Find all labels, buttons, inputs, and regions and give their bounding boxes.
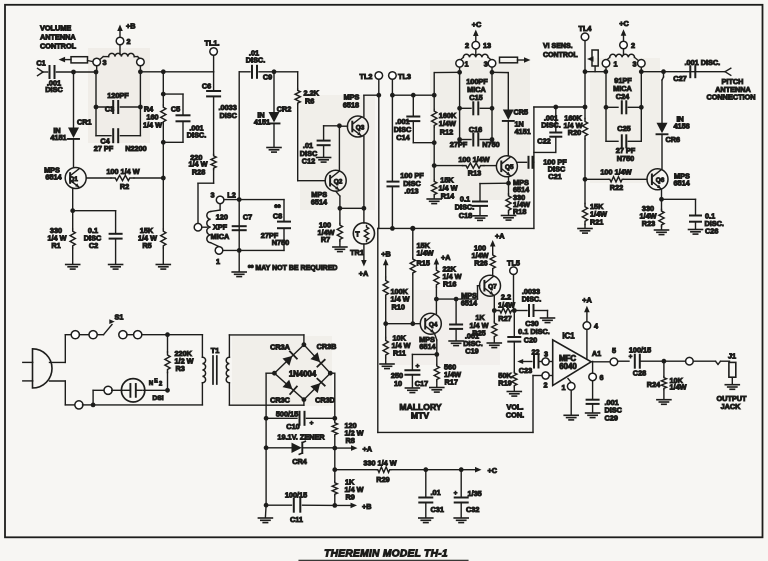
resistor R18 bbox=[506, 183, 530, 216]
svg-text:N: N bbox=[149, 381, 153, 387]
svg-text:TR1: TR1 bbox=[350, 248, 364, 257]
svg-text:CR3D: CR3D bbox=[315, 396, 335, 405]
ground below J1 bbox=[725, 385, 739, 390]
capacitor C20 bbox=[508, 311, 550, 372]
pin 4 of IC1 with +A bbox=[582, 296, 599, 360]
plug bottom wire bbox=[50, 381, 76, 405]
ground below C29 bbox=[586, 413, 600, 418]
bottom rail terminal bbox=[75, 401, 96, 409]
svg-text:R15: R15 bbox=[417, 258, 430, 267]
TL4/R20 vertical line bbox=[583, 41, 588, 119]
wire CR1 to Q1 base bbox=[73, 140, 75, 168]
resistor R12 bbox=[432, 73, 457, 166]
diode CR3A bbox=[270, 343, 297, 366]
svg-text:C20: C20 bbox=[524, 336, 537, 345]
svg-text:XPF: XPF bbox=[213, 223, 228, 232]
svg-text:+C: +C bbox=[472, 20, 482, 29]
label VOL CON bbox=[506, 403, 524, 420]
svg-text:2: 2 bbox=[543, 380, 547, 389]
svg-text:R1: R1 bbox=[51, 241, 60, 250]
svg-text:T: T bbox=[355, 232, 360, 239]
+C arrow right bbox=[475, 466, 498, 475]
resistor R10 bbox=[383, 277, 410, 324]
rail under TL2/TL3 bbox=[378, 226, 534, 231]
svg-text:CONNECTION: CONNECTION bbox=[706, 93, 755, 102]
transistor Q5 bbox=[496, 156, 530, 194]
svg-text:MTV: MTV bbox=[411, 410, 429, 420]
terminal 2 of L1 center tap bbox=[116, 37, 130, 55]
capacitor C17 bbox=[391, 363, 428, 388]
label volume antenna control bbox=[40, 24, 77, 51]
svg-text:C26: C26 bbox=[705, 227, 718, 236]
diode CR5 bbox=[503, 73, 531, 156]
svg-text:R9: R9 bbox=[346, 493, 355, 502]
svg-text:+B: +B bbox=[126, 22, 136, 31]
svg-text:CR4: CR4 bbox=[292, 457, 308, 466]
wire emitter to C17 bbox=[412, 354, 436, 369]
node Q2 emitter junction bbox=[338, 206, 343, 211]
node Q2 collector / Q3 base bbox=[337, 123, 342, 128]
svg-text:2: 2 bbox=[126, 37, 130, 46]
svg-text:C11: C11 bbox=[290, 515, 303, 524]
resistor R13 bbox=[434, 155, 495, 178]
terminal TL4 bbox=[579, 24, 593, 41]
svg-text:27PF: 27PF bbox=[450, 140, 468, 149]
svg-text:ANTENNA: ANTENNA bbox=[40, 33, 76, 42]
C7 rail bbox=[238, 72, 240, 272]
svg-text:4158: 4158 bbox=[674, 122, 690, 131]
resistor R14 bbox=[432, 166, 458, 201]
svg-text:R28: R28 bbox=[192, 167, 205, 176]
connector J1 bbox=[728, 352, 736, 385]
+B supply arrow at L1 bbox=[117, 22, 135, 38]
ground below C18 bbox=[473, 216, 487, 221]
svg-text:6514: 6514 bbox=[311, 198, 328, 207]
label MALLORY MTV bbox=[399, 402, 441, 420]
T1 secondary top wire bbox=[229, 335, 304, 345]
label 1N4004 bbox=[289, 369, 317, 378]
svg-text:R10: R10 bbox=[392, 303, 405, 312]
svg-text:R16: R16 bbox=[443, 280, 456, 289]
wire TL2 down to rail bbox=[376, 79, 381, 228]
terminal TL1 bbox=[205, 39, 220, 56]
svg-text:R12: R12 bbox=[440, 127, 453, 136]
svg-text:1/35: 1/35 bbox=[468, 489, 482, 498]
svg-text:+A: +A bbox=[582, 296, 592, 305]
svg-text:2: 2 bbox=[465, 41, 469, 50]
node R10/R11 bbox=[383, 321, 388, 326]
svg-text:+: + bbox=[454, 491, 458, 497]
node Q5 emitter bbox=[506, 177, 511, 186]
wire Q2 emitter bbox=[336, 191, 364, 208]
svg-text:R29: R29 bbox=[376, 475, 389, 484]
svg-text:100 1/4W: 100 1/4W bbox=[600, 167, 631, 176]
svg-text:C6: C6 bbox=[202, 82, 211, 91]
node R2/R4/R5 junction bbox=[161, 176, 166, 181]
ground below R24 bbox=[657, 400, 671, 405]
svg-text:C19: C19 bbox=[465, 347, 478, 356]
ground below CR2 bbox=[267, 124, 281, 152]
svg-text:TL2: TL2 bbox=[360, 72, 373, 81]
svg-text:R8: R8 bbox=[346, 436, 355, 445]
terminal 3 of L1 bbox=[93, 58, 107, 67]
neon lamp DS1 bbox=[121, 379, 163, 402]
ground below C2 bbox=[109, 265, 123, 270]
wire emitter to C2 bbox=[73, 211, 116, 233]
capacitor C21 bbox=[517, 157, 567, 181]
resistor R15 bbox=[410, 228, 433, 323]
svg-text:R11: R11 bbox=[393, 349, 406, 358]
L2 tank labels bbox=[211, 212, 230, 241]
coil L2 bbox=[207, 190, 236, 266]
capacitor C1 bbox=[36, 59, 73, 95]
svg-text:S1: S1 bbox=[115, 313, 124, 322]
svg-text:6514: 6514 bbox=[45, 173, 62, 182]
svg-text:N750: N750 bbox=[482, 140, 499, 149]
terminal 1 of L2 bbox=[215, 247, 223, 255]
svg-text:DSI: DSI bbox=[152, 395, 163, 402]
node R15/Q4 base bbox=[410, 321, 415, 326]
node C19 tap bbox=[454, 297, 459, 302]
svg-text:R18: R18 bbox=[513, 207, 526, 216]
transistor Q6 bbox=[647, 169, 691, 190]
svg-text:TL5: TL5 bbox=[507, 258, 520, 267]
trimmer slug at TL4 bbox=[587, 50, 598, 72]
wire to Q3 base bbox=[339, 125, 347, 127]
pin 2 of IC1 bbox=[542, 372, 553, 389]
capacitor C6 bbox=[202, 82, 238, 155]
svg-text:JACK: JACK bbox=[721, 402, 742, 411]
svg-text:DISC: DISC bbox=[220, 111, 238, 120]
ground below R7 bbox=[333, 247, 347, 252]
node R3 top bbox=[165, 332, 202, 337]
coil of pitch ref osc bbox=[606, 54, 638, 60]
svg-text:C21: C21 bbox=[548, 172, 561, 181]
terminal right of L1 bbox=[137, 58, 145, 66]
svg-text:120PF: 120PF bbox=[107, 91, 129, 100]
capacitor C3 bbox=[94, 91, 143, 114]
svg-text:CR3C: CR3C bbox=[270, 396, 291, 405]
svg-text:.013: .013 bbox=[404, 187, 418, 196]
node C32 bbox=[459, 467, 476, 472]
capacitor C23 bbox=[519, 348, 542, 376]
svg-text:CR2: CR2 bbox=[277, 105, 292, 114]
wire to Q4 base bbox=[386, 323, 421, 325]
svg-text:DISC.: DISC. bbox=[187, 131, 206, 140]
node L2 bottom bbox=[237, 248, 242, 253]
coil of pitch VFO bbox=[460, 54, 492, 60]
svg-text:CR3B: CR3B bbox=[317, 342, 337, 351]
svg-text:2: 2 bbox=[631, 41, 635, 50]
wire Q3 emitter down bbox=[363, 137, 365, 209]
svg-text:+: + bbox=[310, 420, 314, 427]
wire Q2 collector up bbox=[338, 126, 340, 171]
volume antenna connection stub bbox=[38, 68, 44, 75]
svg-text:R20: R20 bbox=[568, 128, 581, 137]
svg-text:CONTROL: CONTROL bbox=[543, 52, 578, 59]
svg-text:Q2: Q2 bbox=[334, 179, 343, 186]
DC minus rail bbox=[264, 373, 275, 507]
node C28/R24 bbox=[662, 359, 667, 364]
T1 secondary bottom wire bbox=[229, 400, 304, 406]
label VI SENS CONTROL bbox=[543, 43, 578, 59]
pitch antenna connection stub bbox=[725, 68, 731, 75]
ground below R23 bbox=[655, 230, 669, 235]
resistor R24 bbox=[647, 361, 687, 399]
svg-text:** MAY NOT BE REQUIRED: ** MAY NOT BE REQUIRED bbox=[248, 265, 337, 272]
svg-text:Q5: Q5 bbox=[505, 164, 514, 171]
wire R6 to Q2 base bbox=[298, 180, 326, 182]
DC plus rail bbox=[330, 373, 337, 421]
svg-text:R6: R6 bbox=[305, 97, 314, 106]
wire coil3 row to CR6/C27 bbox=[641, 69, 725, 74]
svg-text:E: E bbox=[154, 379, 158, 385]
wire DS1 to R3 bbox=[144, 388, 170, 393]
svg-text:6518: 6518 bbox=[343, 101, 359, 110]
capacitor C5 bbox=[163, 94, 206, 142]
op-amp IC1 MFC6040 bbox=[553, 331, 601, 385]
node Q6 emitter bbox=[659, 190, 664, 202]
svg-text:C17: C17 bbox=[415, 379, 428, 388]
svg-text:C23: C23 bbox=[519, 366, 532, 375]
trimmer slug for VFO coil bbox=[500, 57, 531, 63]
svg-text:1/4W: 1/4W bbox=[498, 300, 515, 309]
resistor R16 bbox=[434, 265, 462, 314]
svg-text:R5: R5 bbox=[142, 241, 151, 250]
wire R28 to L2 wiper bbox=[198, 170, 214, 224]
resistor R26 bbox=[471, 244, 495, 276]
svg-text:R19: R19 bbox=[498, 379, 511, 388]
resistor R20 bbox=[563, 113, 587, 179]
wire to TR1 bbox=[363, 208, 365, 223]
ground below R1 bbox=[66, 265, 80, 270]
note may not be required bbox=[248, 265, 337, 272]
bridge rectifier frame bbox=[272, 342, 333, 402]
+B arrow right bbox=[335, 502, 372, 511]
svg-text:J1: J1 bbox=[728, 352, 736, 361]
wire bottom rail to T1 bbox=[93, 404, 202, 406]
transistor Q4 bbox=[419, 313, 441, 351]
capacitor C18 bbox=[455, 183, 509, 220]
resistor R28 bbox=[188, 153, 216, 177]
svg-text:+A: +A bbox=[441, 253, 451, 262]
ground below R17 bbox=[430, 388, 444, 393]
resistor R3 bbox=[165, 335, 194, 391]
svg-text:DISC: DISC bbox=[45, 85, 63, 94]
ground below C32 bbox=[454, 518, 468, 523]
svg-text:3: 3 bbox=[544, 349, 548, 358]
svg-text:.001 DISC.: .001 DISC. bbox=[685, 58, 721, 67]
svg-text:L2: L2 bbox=[227, 190, 236, 199]
svg-text:C7: C7 bbox=[243, 212, 252, 221]
capacitor C14 bbox=[394, 95, 434, 143]
svg-text:3: 3 bbox=[632, 60, 636, 69]
capacitor C12 bbox=[300, 126, 340, 166]
node L2 top bbox=[237, 197, 242, 202]
resistor R22 bbox=[585, 167, 647, 192]
capacitor C32 bbox=[454, 470, 482, 518]
svg-text:DISC.: DISC. bbox=[522, 295, 541, 304]
svg-text:3: 3 bbox=[210, 191, 214, 200]
svg-text:1: 1 bbox=[216, 257, 220, 266]
scan wash bridge bbox=[232, 336, 332, 406]
AC plug bbox=[23, 349, 52, 388]
ground below C31 bbox=[419, 518, 433, 523]
capacitor C22 bbox=[534, 107, 561, 152]
terminal 1 of VFO coil bbox=[456, 60, 469, 69]
ground below DC minus rail bbox=[258, 505, 272, 522]
svg-text:C25: C25 bbox=[617, 124, 630, 133]
svg-text:DISC.: DISC. bbox=[246, 56, 265, 65]
VFO left rail bbox=[459, 72, 461, 139]
wire Q7 emitter bbox=[492, 296, 497, 313]
thermistor TR1 bbox=[350, 223, 374, 257]
svg-text:+: + bbox=[629, 355, 633, 361]
ground below C26 bbox=[689, 230, 703, 235]
wire C9 to R6 bbox=[274, 71, 298, 73]
svg-text:6040: 6040 bbox=[559, 362, 577, 371]
svg-text:4151: 4151 bbox=[50, 133, 66, 142]
svg-text:C27: C27 bbox=[673, 74, 686, 83]
transformer T1 bbox=[202, 335, 229, 405]
svg-text:C18: C18 bbox=[459, 211, 472, 220]
svg-text:5: 5 bbox=[612, 346, 616, 355]
svg-text:4151: 4151 bbox=[515, 127, 531, 136]
volume pot wiper arrow bbox=[517, 359, 532, 364]
wire Q1 emitter bbox=[70, 188, 75, 213]
+C supply arrow at VFO tank bbox=[472, 20, 482, 41]
svg-text:19.1V. ZENER: 19.1V. ZENER bbox=[277, 433, 325, 442]
svg-text:C28: C28 bbox=[633, 369, 646, 378]
wire TL4 row to coil bbox=[585, 69, 608, 74]
svg-text:C32: C32 bbox=[466, 505, 479, 514]
svg-text:C15: C15 bbox=[469, 93, 482, 102]
capacitor C13 disc .013 bbox=[388, 171, 425, 228]
wire Q4 emitter bbox=[434, 334, 439, 357]
svg-text:R23: R23 bbox=[642, 219, 655, 228]
resistor R11 bbox=[383, 324, 411, 364]
plug top wire bbox=[50, 335, 72, 363]
node C9/CR2 bbox=[272, 69, 277, 74]
svg-text:VOLUME: VOLUME bbox=[40, 24, 71, 33]
svg-text:R14: R14 bbox=[441, 191, 455, 200]
+B arrow to R10 bbox=[381, 250, 391, 277]
svg-text:1N4004: 1N4004 bbox=[289, 369, 317, 378]
node +A takeoff bbox=[332, 446, 337, 451]
output coupling terminal bbox=[664, 357, 716, 365]
terminal 3 of VFO coil bbox=[484, 60, 496, 69]
ground below R21 bbox=[578, 229, 592, 234]
svg-text:C9: C9 bbox=[263, 73, 272, 82]
capacitor C10 bbox=[266, 409, 335, 431]
svg-text:DISC.: DISC. bbox=[541, 120, 560, 129]
bus Q4 collector to Q7 base bbox=[436, 286, 479, 299]
svg-text:C12: C12 bbox=[302, 157, 315, 166]
svg-text:Q6: Q6 bbox=[656, 177, 665, 184]
svg-text:TL1.: TL1. bbox=[205, 39, 220, 48]
capacitor C29 bbox=[587, 381, 623, 423]
svg-text:6514: 6514 bbox=[419, 342, 436, 351]
+A arrow to R16 bbox=[434, 253, 452, 268]
resistor R1 bbox=[47, 211, 75, 264]
diode CR2 bbox=[254, 72, 291, 127]
trimmer slug for L1 bbox=[59, 57, 93, 63]
transistor Q3 bbox=[343, 93, 369, 138]
node +B takeoff bbox=[332, 503, 337, 508]
svg-text:4151: 4151 bbox=[254, 118, 270, 127]
svg-text:N750: N750 bbox=[272, 238, 289, 247]
svg-text:C10: C10 bbox=[286, 422, 299, 431]
svg-text:1: 1 bbox=[561, 383, 565, 392]
svg-text:+: + bbox=[416, 363, 420, 370]
svg-text:TL3: TL3 bbox=[398, 72, 411, 81]
ground below C17 bbox=[405, 388, 419, 393]
resistor R23 bbox=[639, 199, 664, 229]
svg-text:C1: C1 bbox=[36, 59, 45, 68]
resistor R17 bbox=[434, 354, 461, 387]
switch S1 bbox=[71, 313, 167, 339]
svg-text:CR6: CR6 bbox=[666, 135, 681, 144]
neon lamp DS1 branch bbox=[93, 386, 123, 405]
resistor R25 bbox=[469, 311, 496, 343]
wire C21 line vertical bbox=[533, 107, 535, 228]
svg-text:1/4W: 1/4W bbox=[417, 249, 434, 258]
svg-text:C2: C2 bbox=[89, 241, 98, 250]
svg-text:+A: +A bbox=[363, 445, 373, 454]
capacitor C8 bbox=[239, 200, 290, 251]
bus TL3 to R12 line bbox=[392, 93, 434, 98]
resistor R8 bbox=[332, 421, 364, 448]
VFO tank left stub bbox=[435, 67, 463, 75]
capacitor C25 bbox=[606, 124, 641, 163]
capacitor C15 bbox=[457, 77, 494, 114]
capacitor C9 bbox=[239, 49, 274, 82]
pitch ref +C arrow bbox=[619, 19, 629, 41]
jack tip contact bbox=[716, 361, 730, 364]
svg-text:1: 1 bbox=[464, 60, 468, 69]
terminal 2 of pitch ref coil bbox=[620, 41, 635, 55]
svg-text:R7: R7 bbox=[321, 235, 330, 244]
wire L2 terminals to C7 rail bbox=[223, 200, 239, 251]
svg-text:Q4: Q4 bbox=[429, 322, 438, 329]
node R16/Q4 collector bbox=[434, 297, 439, 302]
wire TR1 to +A bbox=[359, 244, 369, 278]
caption THEREMIN MODEL TH-1 bbox=[299, 549, 468, 561]
svg-text:100/15: 100/15 bbox=[629, 346, 651, 355]
capacitor C4 bbox=[94, 129, 147, 153]
capacitor C31 bbox=[419, 470, 444, 518]
capacitor C19 bbox=[450, 299, 483, 355]
svg-text:CON.: CON. bbox=[506, 411, 524, 420]
wire TL1 down bbox=[213, 55, 215, 90]
box right edge / IC pin2 wire bbox=[533, 376, 542, 433]
svg-text:Q7: Q7 bbox=[488, 284, 497, 291]
svg-text:TL4: TL4 bbox=[579, 24, 593, 33]
svg-text:CR5: CR5 bbox=[514, 108, 529, 117]
svg-text:C5: C5 bbox=[171, 105, 180, 114]
svg-text:R27: R27 bbox=[498, 314, 511, 323]
resistor R5 bbox=[138, 178, 166, 264]
scan wash q2q3 bbox=[300, 95, 375, 210]
svg-text:3: 3 bbox=[102, 58, 106, 67]
svg-text:100 1/4W: 100 1/4W bbox=[458, 155, 489, 164]
svg-text:C16: C16 bbox=[469, 125, 482, 134]
svg-text:C14: C14 bbox=[396, 133, 410, 142]
svg-text:100/15: 100/15 bbox=[285, 491, 307, 500]
zener diode CR4 bbox=[266, 433, 335, 467]
resistor R4 bbox=[143, 72, 166, 178]
svg-text:500/15: 500/15 bbox=[276, 409, 298, 418]
